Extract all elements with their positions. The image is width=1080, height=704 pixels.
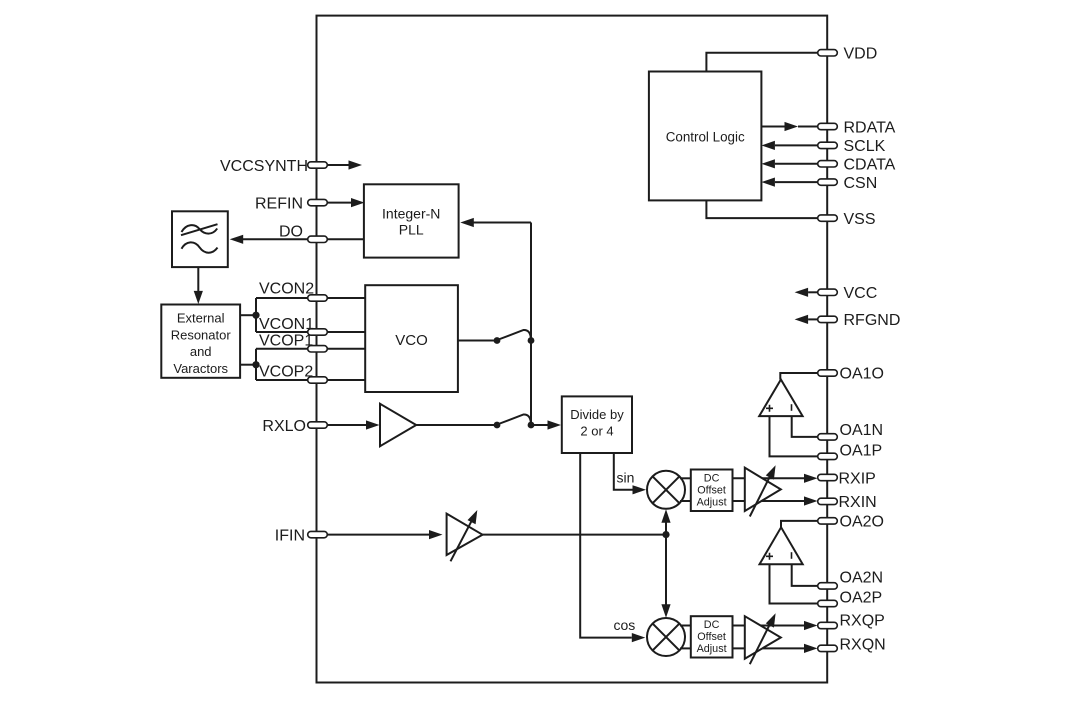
amplifier A2 (IF VGA) bbox=[447, 510, 483, 561]
pin RFGND bbox=[795, 312, 901, 329]
wire filter to resonator bbox=[194, 267, 203, 304]
svg-text:REFIN: REFIN bbox=[255, 195, 303, 212]
wires mixer M1 to DC offset box bbox=[680, 477, 691, 479]
bus LO select vertical bbox=[530, 223, 532, 426]
svg-text:CSN: CSN bbox=[844, 175, 878, 192]
pin CDATA bbox=[761, 157, 895, 174]
external resonator box bbox=[161, 305, 240, 378]
svg-text:Integer-N: Integer-N bbox=[382, 206, 440, 222]
svg-text:VCON2: VCON2 bbox=[259, 281, 314, 298]
pin OA1P bbox=[770, 416, 883, 460]
junction dot VCON bbox=[252, 312, 259, 319]
pin RXIN bbox=[804, 494, 877, 511]
junction dot IF split bbox=[662, 531, 669, 538]
pin OA1N bbox=[792, 416, 883, 440]
switch S2 (RXLO select) bbox=[494, 414, 535, 428]
svg-text:OA2P: OA2P bbox=[840, 590, 883, 607]
wire VCO output to switch bbox=[458, 340, 497, 342]
op-amp U7 (OA2) bbox=[760, 527, 803, 564]
svg-text:PLL: PLL bbox=[399, 222, 424, 238]
wire switch to divider bbox=[531, 420, 561, 429]
wires DC box 1 to RXIP/RXIN pins bbox=[733, 477, 805, 479]
svg-text:VCOP1: VCOP1 bbox=[259, 333, 313, 350]
pin RXIP bbox=[804, 470, 876, 487]
svg-text:Offset: Offset bbox=[697, 631, 726, 643]
pin IFIN bbox=[275, 527, 443, 544]
wire divider to sin mixer bbox=[614, 453, 646, 494]
svg-text:sin: sin bbox=[617, 469, 635, 485]
svg-text:OA2O: OA2O bbox=[840, 514, 884, 531]
amplifier A1 (RXLO buffer) bbox=[380, 404, 416, 446]
junction dot VCOP bbox=[252, 361, 259, 368]
svg-text:VCC: VCC bbox=[844, 285, 878, 302]
pin RDATA bbox=[761, 119, 895, 136]
svg-text:VCO: VCO bbox=[395, 332, 428, 349]
svg-text:SCLK: SCLK bbox=[844, 138, 886, 155]
svg-text:2 or 4: 2 or 4 bbox=[580, 424, 613, 439]
svg-text:OA2N: OA2N bbox=[840, 569, 884, 586]
pin VCON1 bbox=[256, 316, 365, 335]
svg-text:DC: DC bbox=[704, 619, 720, 631]
node VCON riser bbox=[255, 298, 257, 332]
svg-text:VSS: VSS bbox=[844, 211, 876, 228]
svg-text:Adjust: Adjust bbox=[697, 496, 727, 508]
svg-text:OA1N: OA1N bbox=[840, 422, 884, 439]
divider box U4 Divide by 2 or 4 bbox=[562, 396, 632, 453]
svg-text:RXLO: RXLO bbox=[262, 418, 306, 435]
svg-text:RDATA: RDATA bbox=[844, 119, 896, 136]
wire amp to switch bbox=[416, 424, 497, 426]
svg-text:RXQN: RXQN bbox=[840, 636, 886, 653]
wires mixer M2 to DC offset box bbox=[680, 625, 691, 627]
svg-text:RFGND: RFGND bbox=[844, 312, 901, 329]
wire divider to cos mixer bbox=[580, 453, 645, 642]
svg-text:Control Logic: Control Logic bbox=[666, 129, 745, 144]
node VCOP riser bbox=[255, 349, 257, 380]
pin OA2P bbox=[770, 564, 883, 606]
wire PLL feedback from bus bbox=[460, 218, 531, 227]
pin VCC bbox=[795, 285, 878, 302]
pin VSS bbox=[706, 200, 875, 228]
pin OA1O bbox=[780, 366, 884, 383]
svg-text:RXIP: RXIP bbox=[839, 470, 876, 487]
svg-text:External: External bbox=[177, 311, 225, 326]
PLL box U2 Integer-N PLL bbox=[364, 184, 459, 257]
amplifier A3 (I channel VGA) bbox=[745, 465, 781, 516]
pin VCON2 bbox=[256, 281, 365, 302]
op-amp U6 (OA1) bbox=[759, 380, 802, 417]
pin RXQP bbox=[804, 612, 885, 630]
pin VDD bbox=[706, 46, 877, 72]
svg-text:DC: DC bbox=[704, 472, 720, 484]
svg-text:VCON1: VCON1 bbox=[259, 316, 314, 333]
svg-text:Adjust: Adjust bbox=[697, 643, 727, 655]
pin DO bbox=[230, 224, 365, 244]
pin VCOP1 bbox=[256, 333, 365, 353]
pin OA2N bbox=[792, 564, 883, 589]
pin VCOP2 bbox=[256, 363, 365, 383]
pin OA2O bbox=[781, 514, 884, 531]
svg-text:VDD: VDD bbox=[844, 46, 878, 63]
amplifier A4 (Q channel VGA) bbox=[745, 613, 781, 664]
DC offset adjust box 1 bbox=[691, 470, 733, 512]
svg-text:Resonator: Resonator bbox=[171, 327, 232, 342]
wire junction to sin mixer (up) bbox=[661, 509, 670, 534]
svg-text:VCCSYNTH: VCCSYNTH bbox=[220, 158, 308, 175]
pin RXQN bbox=[804, 636, 886, 653]
svg-text:Divide by: Divide by bbox=[570, 407, 624, 422]
filter FL1 (loop filter) bbox=[172, 211, 228, 267]
svg-text:IFIN: IFIN bbox=[275, 527, 305, 544]
wire resonator to VCOP riser bbox=[240, 364, 256, 366]
pin VCCSYNTH bbox=[220, 158, 362, 175]
mixer M1 (sin) bbox=[647, 471, 685, 509]
DC offset adjust box 2 bbox=[691, 616, 733, 657]
mixer M2 (cos) bbox=[647, 618, 685, 656]
chip boundary U1 bbox=[317, 16, 828, 683]
pin RXLO bbox=[262, 418, 379, 435]
wire IF amp to mixers junction bbox=[470, 534, 666, 536]
switch S1 (VCO select) bbox=[494, 330, 535, 344]
wires DC box 2 to RXQP/RXQN pins bbox=[733, 625, 805, 627]
svg-text:RXQP: RXQP bbox=[840, 612, 885, 629]
svg-text:OA1O: OA1O bbox=[840, 366, 884, 383]
control logic box U5 bbox=[649, 72, 762, 201]
pin CSN bbox=[761, 175, 877, 192]
pin SCLK bbox=[761, 138, 885, 155]
svg-text:and: and bbox=[190, 344, 212, 359]
VCO box U3 bbox=[365, 285, 458, 392]
svg-text:RXIN: RXIN bbox=[839, 494, 877, 511]
wire junction to cos mixer (down) bbox=[661, 535, 670, 618]
svg-text:cos: cos bbox=[614, 617, 636, 633]
svg-text:OA1P: OA1P bbox=[840, 442, 883, 459]
svg-text:VCOP2: VCOP2 bbox=[259, 363, 313, 380]
svg-text:CDATA: CDATA bbox=[844, 157, 896, 174]
pin REFIN bbox=[255, 195, 365, 212]
svg-text:DO: DO bbox=[279, 224, 303, 241]
wire resonator to VCON riser bbox=[240, 314, 256, 316]
svg-text:Varactors: Varactors bbox=[173, 361, 228, 376]
svg-text:Offset: Offset bbox=[697, 484, 726, 496]
